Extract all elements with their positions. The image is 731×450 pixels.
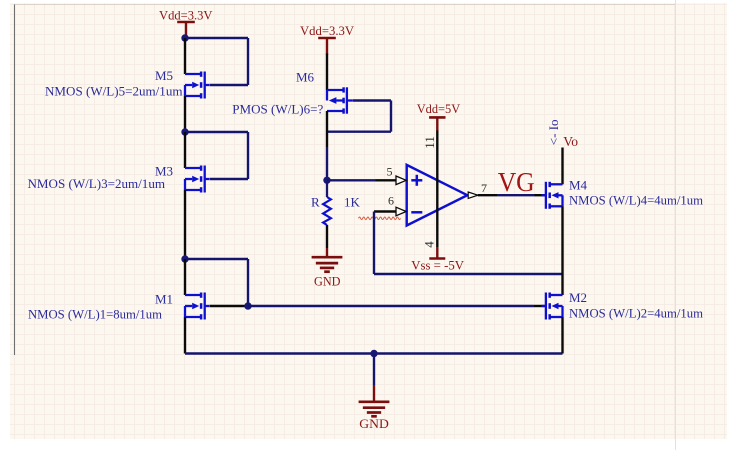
svg-text:R: R bbox=[311, 195, 320, 210]
svg-text:7: 7 bbox=[481, 181, 487, 195]
svg-text:M5: M5 bbox=[155, 68, 173, 83]
wire gate bus M1-M2 bbox=[248, 305, 534, 307]
node junction M3/M1 bbox=[181, 255, 188, 262]
wire Vo to M4 drain bbox=[561, 148, 563, 185]
svg-text:<- Io: <- Io bbox=[546, 119, 561, 145]
svg-text:M4: M4 bbox=[569, 177, 588, 192]
wire M2 source pin bbox=[561, 317, 563, 354]
transistor M4 bbox=[550, 183, 563, 185]
wire M6 drain pin bbox=[326, 111, 328, 147]
svg-text:5: 5 bbox=[387, 164, 393, 178]
pin 5 (+ input) bbox=[376, 179, 397, 181]
wire output to VG bbox=[497, 194, 535, 196]
wire R bottom pin bbox=[326, 225, 328, 248]
sheet border bbox=[14, 4, 16, 355]
svg-text:PMOS (W/L)6=?: PMOS (W/L)6=? bbox=[232, 102, 323, 117]
node junction ground bbox=[370, 350, 377, 357]
op-amp U1 bbox=[407, 165, 468, 226]
wire M5 drain pin bbox=[184, 38, 186, 74]
svg-text:NMOS (W/L)5=2um/1um: NMOS (W/L)5=2um/1um bbox=[45, 83, 183, 98]
ground GND (under R) bbox=[326, 248, 328, 257]
pin 6 (- input) bbox=[374, 210, 396, 212]
svg-text:M2: M2 bbox=[569, 290, 587, 305]
wire M5 drain-gate loop bbox=[185, 37, 248, 39]
wire feedback from pin 6 bbox=[373, 212, 375, 275]
wire to op-amp + bbox=[327, 179, 376, 181]
wire M6 drain to R bbox=[326, 147, 328, 180]
ground GND (bottom) bbox=[373, 385, 375, 402]
pin 4 (V-) bbox=[436, 195, 438, 248]
error squiggle bbox=[359, 217, 401, 220]
node junction at Vdd/M5 bbox=[181, 34, 188, 41]
pin 11 (V+) bbox=[436, 130, 438, 195]
svg-text:Vdd=3.3V: Vdd=3.3V bbox=[159, 7, 213, 22]
svg-text:M1: M1 bbox=[155, 291, 173, 306]
power Vdd=3.3V (left) bbox=[177, 21, 195, 24]
wire M3 source to M1 junction bbox=[184, 190, 186, 259]
svg-text:GND: GND bbox=[359, 416, 389, 431]
node junction R/op-amp bbox=[323, 177, 330, 184]
transistor M5 bbox=[185, 73, 201, 75]
node junction M5/M3 bbox=[181, 128, 188, 135]
wire M3 drain-gate loop bbox=[185, 131, 248, 133]
wire M5 source pin bbox=[184, 96, 186, 132]
wire GND stem bbox=[373, 354, 375, 386]
wire M2 gate pin bbox=[534, 305, 545, 307]
svg-text:Vdd=5V: Vdd=5V bbox=[417, 101, 461, 116]
power Vdd=5V bbox=[429, 116, 445, 119]
svg-text:11: 11 bbox=[422, 136, 437, 149]
wire M1 drain-gate loop bbox=[185, 258, 248, 260]
wire M4 source to M2 drain bbox=[561, 206, 563, 295]
svg-text:Vo: Vo bbox=[563, 135, 578, 150]
wire M6 gate-drain loop bbox=[353, 99, 391, 101]
power Vdd=3.3V (M6) bbox=[318, 37, 336, 40]
transistor M3 bbox=[185, 167, 201, 169]
wire M1 drain pin bbox=[184, 259, 186, 295]
wire M6 source pin bbox=[326, 54, 328, 91]
svg-text:6: 6 bbox=[388, 194, 394, 208]
node junction M1 gate bbox=[244, 302, 251, 309]
wire M3 drain pin bbox=[184, 132, 186, 168]
resistor R bbox=[323, 197, 331, 225]
transistor M6 bbox=[327, 89, 344, 91]
transistor M1 bbox=[185, 294, 201, 296]
power Vss=-5V bbox=[436, 248, 438, 259]
svg-text:M6: M6 bbox=[296, 69, 315, 84]
svg-text:NMOS (W/L)2=4um/1um: NMOS (W/L)2=4um/1um bbox=[569, 305, 703, 320]
wire M4 gate pin bbox=[535, 194, 546, 196]
svg-text:VG: VG bbox=[498, 167, 535, 197]
svg-text:4: 4 bbox=[422, 241, 437, 248]
svg-text:NMOS (W/L)1=8um/1um: NMOS (W/L)1=8um/1um bbox=[28, 306, 162, 321]
wire M1 source pin bbox=[184, 317, 186, 354]
wire M1 gate pin bbox=[210, 305, 249, 307]
svg-text:NMOS (W/L)3=2um/1um: NMOS (W/L)3=2um/1um bbox=[28, 176, 166, 191]
transistor M2 bbox=[550, 294, 563, 296]
svg-text:Vss = -5V: Vss = -5V bbox=[411, 257, 464, 272]
svg-text:Vdd=3.3V: Vdd=3.3V bbox=[300, 23, 355, 38]
svg-text:1K: 1K bbox=[344, 195, 361, 210]
svg-text:GND: GND bbox=[314, 273, 341, 288]
svg-text:NMOS (W/L)4=4um/1um: NMOS (W/L)4=4um/1um bbox=[569, 192, 703, 207]
wire ground rail bbox=[185, 352, 563, 354]
pin 7 (output) bbox=[468, 192, 478, 198]
